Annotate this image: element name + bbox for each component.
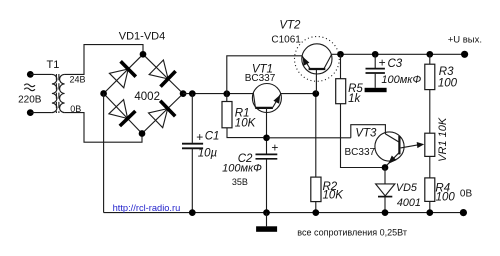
wire VD5 cathode lead [384,197,386,213]
svg-text:4002: 4002 [134,91,160,103]
wire bridge edge bottom-right [142,94,183,134]
ground bar below C3 [365,88,387,92]
node C3 top [372,51,379,58]
wire C2 bottom lead [266,160,268,213]
node: mains input terminal bottom [27,109,34,116]
svg-text:10K: 10K [235,118,257,130]
wire C3 bottom lead [374,74,376,88]
svg-text:C3: C3 [388,58,403,70]
resistor R5 [336,79,346,104]
capacitor C2 [256,154,278,158]
svg-text:VT2: VT2 [279,20,301,32]
wire 24V to bridge top [65,45,143,75]
transformer T1 core [56,74,59,113]
wire R3 to VR1 [429,90,431,134]
svg-text:C1: C1 [205,131,220,143]
node C1 top junction [189,90,196,97]
svg-text:+U вых.: +U вых. [448,34,482,45]
node R1/C2/VT1 base junction [263,134,270,141]
svg-text:все сопротивления 0,25Вт: все сопротивления 0,25Вт [297,227,407,237]
wire R2 bottom lead [315,202,317,213]
node R4 bottom on rail [426,209,433,216]
svg-text:10µ: 10µ [198,147,218,159]
transformer T1 primary winding [52,74,57,112]
svg-text:100: 100 [436,191,456,203]
wire R5 bottom to VT3 emitter node [341,104,386,168]
svg-text:VT3: VT3 [355,127,377,139]
wire VT1 base node to VT3 collector (horizontal) [267,137,351,139]
wire VT2 emitter to R1 top node [227,56,302,94]
node R2 bottom on rail [312,209,319,216]
wire bridge edge top-right [143,54,183,93]
wire R1 top lead [226,94,228,102]
wire VR1 to R4 [429,156,431,178]
svg-text:+: + [379,56,386,70]
node R5 top [337,51,344,58]
wire ground stub [266,213,268,227]
svg-text:1k: 1k [348,93,361,105]
capacitor C1 [182,144,203,149]
svg-text:100: 100 [438,78,458,90]
wire R4 bottom lead [429,201,431,212]
svg-text:VD5: VD5 [396,182,418,194]
capacitor C3 [366,69,385,73]
wire plus rail to VT1 collector [183,93,253,95]
svg-text:100мкФ: 100мкФ [222,163,262,175]
diode VD2 [149,60,176,87]
wire VT2 base node down to R2 [315,94,317,178]
svg-text:R3: R3 [439,66,454,78]
wire VT2 collector / +U rail [332,53,465,55]
svg-text:220В: 220В [18,94,42,105]
wire VT1 base lead down [266,113,268,155]
wire primary top [30,73,52,75]
resistor R1 [222,102,232,128]
svg-text:35В: 35В [232,177,248,187]
node C2/ground on rail [263,209,270,216]
transistor VT3 [375,132,404,167]
wire bridge edge left-top [104,54,143,93]
node VT2 base junction [312,90,319,97]
wire minus rail vertical [103,94,105,213]
svg-text:10K: 10K [323,189,345,201]
node bridge bottom [139,130,146,137]
transistor VT1 [252,84,281,113]
svg-text:BC337: BC337 [245,73,276,84]
svg-text:BC337: BC337 [345,147,376,158]
wire VD5 anode lead [384,168,386,184]
wire VT2 base lead [315,70,317,94]
wire C1 top lead [191,94,193,143]
ground [256,226,277,232]
node R1 top junction [223,90,230,97]
svg-text:VD1-VD4: VD1-VD4 [119,30,165,42]
wire R3 top lead [429,54,431,64]
node: mains input terminal top [27,71,34,78]
wire R5 top lead [340,54,342,78]
svg-text:100мкФ: 100мкФ [381,74,421,86]
node R3 top [426,51,433,58]
svg-text:T1: T1 [46,59,59,71]
node bridge top [140,51,147,58]
svg-text:http://rcl-radio.ru: http://rcl-radio.ru [113,203,181,213]
node bridge left (minus) [100,90,107,97]
VR1 wiper arrow [401,142,425,148]
svg-text:24В: 24В [70,75,86,85]
wire C1 bottom lead [191,149,193,213]
node +U output terminal [461,51,468,58]
transformer T1 secondary winding [60,74,65,112]
diode VD4 [149,101,176,128]
node VT3 emitter junction [382,164,389,171]
diode VD5 [376,184,395,197]
node bridge right (plus) [180,90,187,97]
wire 0V to bridge bottom [65,113,142,143]
svg-text:VR1 10K: VR1 10K [437,117,449,162]
wire C3 top lead [374,54,376,68]
resistor R3 [425,64,435,89]
resistor R4 [425,178,435,202]
wire bridge edge left-bottom [104,94,142,134]
node C1 bottom on rail [189,209,196,216]
wire VT3 collector bend [351,125,386,138]
diode VD3 [109,100,135,126]
wire R1 bottom to VT1 base node [227,128,263,138]
svg-text:+: + [196,130,203,144]
wire 0V bottom rail [104,212,464,214]
diode VD1 [109,61,135,88]
svg-text:+: + [271,140,278,154]
AC symbol [24,84,35,91]
svg-text:C1061: C1061 [271,35,301,46]
node VD5 bottom on rail [382,209,389,216]
node 0V output terminal [460,209,467,216]
svg-text:4001: 4001 [397,197,421,209]
wire primary bottom [30,112,52,114]
svg-text:0В: 0В [460,188,473,199]
resistor R2 [311,177,321,202]
wire VT1 emitter to VT2 base node [281,93,316,95]
potentiometer VR1 [425,133,435,156]
transistor VT2 [295,37,340,82]
